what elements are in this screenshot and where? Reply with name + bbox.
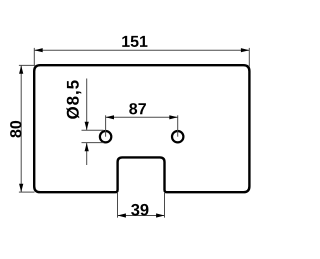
svg-text:Ø8,5: Ø8,5 [64,79,83,119]
svg-text:39: 39 [131,201,149,219]
svg-text:151: 151 [121,34,148,51]
svg-text:80: 80 [8,120,25,138]
svg-text:87: 87 [129,101,147,118]
